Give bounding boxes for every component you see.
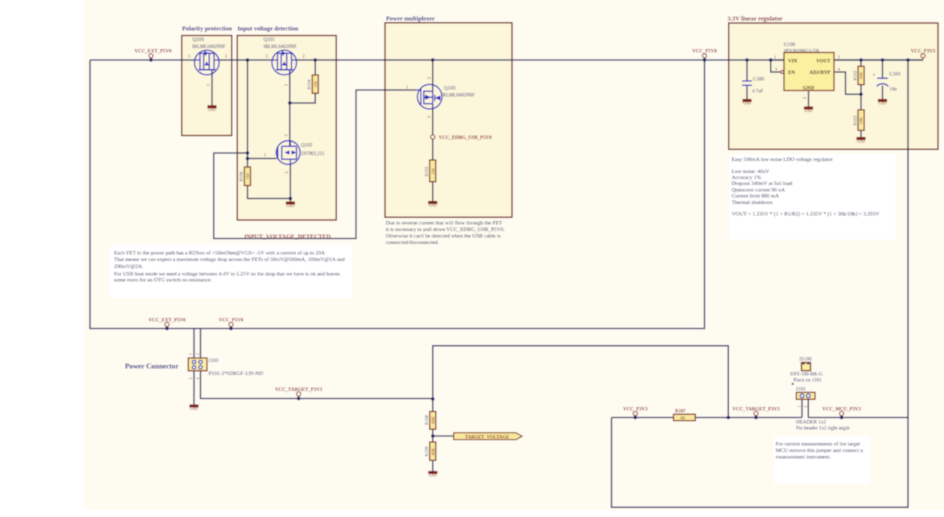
svg-text:measurement instrument.: measurement instrument.	[776, 455, 831, 461]
svg-text:Polarity protection: Polarity protection	[182, 26, 232, 33]
svg-text:ADJ/BYP: ADJ/BYP	[809, 71, 830, 76]
svg-text:JS100: JS100	[799, 356, 812, 362]
svg-text:R102: R102	[852, 70, 857, 81]
svg-text:TARGET_VOLTAGE: TARGET_VOLTAGE	[465, 436, 509, 441]
svg-text:IRLML6402PBF: IRLML6402PBF	[441, 94, 475, 99]
svg-text:Due to reverse current that wi: Due to reverse current that will flow th…	[386, 219, 503, 226]
svg-text:some room for an OTG switch on: some room for an OTG switch on-resistanc…	[114, 277, 212, 284]
svg-text:VCC_TARGET_P3V3: VCC_TARGET_P3V3	[275, 388, 323, 393]
svg-text:Input voltage detection: Input voltage detection	[238, 26, 299, 33]
svg-text:0R: 0R	[680, 416, 685, 421]
svg-text:IRLML6402PBF: IRLML6402PBF	[264, 45, 297, 50]
svg-text:1: 1	[798, 406, 802, 408]
svg-text:For USB host mode we need a vo: For USB host mode we need a voltage betw…	[114, 271, 340, 277]
svg-text:VCC_EXT_P5V0: VCC_EXT_P5V0	[135, 50, 173, 55]
svg-text:EN: EN	[788, 71, 795, 76]
svg-text:1: 1	[283, 84, 288, 86]
svg-text:SPX3819M5-L/TR: SPX3819M5-L/TR	[784, 48, 820, 53]
svg-text:+: +	[873, 73, 876, 79]
svg-text:Low noise: 40uV: Low noise: 40uV	[732, 169, 770, 175]
svg-text:40K: 40K	[430, 447, 435, 455]
svg-text:GND: GND	[743, 102, 751, 106]
svg-text:1M: 1M	[313, 81, 318, 87]
svg-text:18K: 18K	[859, 116, 864, 124]
svg-text:Thermal shutdown: Thermal shutdown	[732, 200, 773, 206]
svg-text:For current measurements of th: For current measurements of the target	[776, 441, 861, 448]
svg-text:3: 3	[284, 134, 289, 136]
svg-text:30K: 30K	[859, 71, 864, 79]
svg-text:3: 3	[775, 66, 777, 71]
svg-text:5: 5	[838, 54, 840, 59]
svg-text:1M: 1M	[245, 173, 250, 179]
svg-text:Q100: Q100	[192, 37, 204, 43]
svg-text:2: 2	[427, 77, 432, 79]
svg-text:3: 3	[266, 54, 268, 59]
svg-text:GND: GND	[287, 204, 295, 208]
svg-text:1: 1	[189, 353, 193, 355]
svg-text:4.7uF: 4.7uF	[752, 90, 764, 95]
svg-text:GND: GND	[190, 407, 198, 411]
svg-text:Dropout 340mV at full load: Dropout 340mV at full load	[732, 180, 793, 187]
svg-text:Quiescent current 90 uA: Quiescent current 90 uA	[732, 187, 785, 193]
svg-text:2: 2	[196, 353, 200, 355]
svg-text:3: 3	[189, 378, 193, 380]
svg-text:Otherwise it can't be detected: Otherwise it can't be detected when the …	[386, 233, 501, 239]
svg-text:INPUT_VOLTAGE_DETECTED: INPUT_VOLTAGE_DETECTED	[244, 234, 331, 240]
svg-text:GND: GND	[857, 140, 865, 144]
svg-text:Accuracy 1%: Accuracy 1%	[732, 175, 762, 181]
svg-text:2: 2	[802, 97, 807, 99]
svg-text:Pin header 1x2 right angle: Pin header 1x2 right angle	[796, 426, 850, 432]
svg-text:VIN: VIN	[788, 60, 798, 65]
svg-text:R107: R107	[675, 410, 686, 415]
svg-text:2: 2	[804, 406, 808, 408]
svg-text:4: 4	[196, 378, 200, 380]
svg-text:1: 1	[406, 85, 408, 90]
svg-text:2: 2	[303, 54, 305, 59]
svg-text:R106: R106	[239, 171, 244, 182]
svg-text:connected/disconnected.: connected/disconnected.	[386, 240, 439, 246]
svg-text:Place on J101: Place on J101	[793, 378, 822, 384]
svg-text:Q103: Q103	[444, 86, 456, 92]
svg-text:VCC_P5V0: VCC_P5V0	[219, 318, 244, 323]
svg-text:it is necessary to pull down V: it is necessary to pull down VCC_EDBG_US…	[386, 227, 505, 233]
svg-text:GND: GND	[208, 108, 216, 112]
svg-text:10u: 10u	[890, 88, 898, 93]
svg-text:GND: GND	[879, 102, 887, 106]
svg-text:VCC_P5V0: VCC_P5V0	[692, 50, 717, 55]
svg-text:R109: R109	[424, 446, 429, 457]
svg-text:SNT-100-BK-G: SNT-100-BK-G	[790, 372, 823, 378]
svg-text:HEADER 1x2: HEADER 1x2	[796, 419, 827, 425]
svg-text:3: 3	[188, 54, 190, 59]
svg-text:VCC_EXT_P5V0: VCC_EXT_P5V0	[149, 318, 187, 323]
svg-text:VCC_EDBG_USB_P5V0: VCC_EDBG_USB_P5V0	[439, 136, 492, 141]
svg-text:200mV@2A.: 200mV@2A.	[114, 264, 143, 270]
svg-text:P101-2*02RGF-139-ND: P101-2*02RGF-139-ND	[209, 371, 264, 377]
svg-text:C100: C100	[753, 77, 765, 83]
svg-text:Power Connector: Power Connector	[125, 363, 179, 371]
svg-text:1M: 1M	[430, 168, 435, 174]
svg-text:2: 2	[284, 171, 289, 173]
svg-text:VCC_TARGET_P3V3: VCC_TARGET_P3V3	[732, 408, 780, 413]
svg-text:VOUT: VOUT	[816, 60, 831, 65]
svg-text:GND: GND	[803, 86, 815, 91]
svg-text:J100: J100	[209, 358, 219, 364]
svg-text:VCC_P3V3: VCC_P3V3	[911, 50, 936, 55]
svg-text:3.3V linear regulator: 3.3V linear regulator	[728, 16, 783, 23]
svg-text:1: 1	[264, 153, 266, 158]
svg-text:VOUT = 1.235V * (1 + R1/R2) =: VOUT = 1.235V * (1 + R1/R2) = 1.235V * (…	[732, 211, 880, 218]
svg-text:Current limit 800 mA: Current limit 800 mA	[732, 194, 779, 200]
svg-text:VCC_P3V3: VCC_P3V3	[623, 408, 648, 413]
svg-text:Easy 500mA low noise LDO volta: Easy 500mA low noise LDO voltage regulat…	[732, 157, 833, 163]
svg-text:GND: GND	[805, 109, 813, 113]
svg-text:Q102: Q102	[301, 143, 313, 149]
svg-text:3: 3	[427, 116, 432, 118]
svg-text:2N7002,215: 2N7002,215	[301, 152, 325, 157]
svg-text:1: 1	[206, 84, 211, 86]
svg-text:R103: R103	[852, 115, 857, 126]
svg-text:2: 2	[225, 54, 227, 59]
svg-text:Q101: Q101	[264, 37, 276, 43]
svg-text:C101: C101	[890, 72, 902, 78]
svg-text:R108: R108	[424, 414, 429, 425]
svg-text:That means we can expect a max: That means we can expect a maximum volta…	[114, 256, 345, 263]
svg-text:R105: R105	[424, 166, 429, 177]
svg-text:VCC_MCU_P3V3: VCC_MCU_P3V3	[822, 408, 861, 413]
svg-text:GND: GND	[429, 474, 437, 478]
svg-text:Each FET in the power path has: Each FET in the power path has a RDSon o…	[114, 250, 325, 257]
svg-text:J101: J101	[796, 386, 806, 392]
svg-text:MCU remove this jumper and con: MCU remove this jumper and connect a	[776, 448, 864, 454]
svg-text:1: 1	[774, 54, 776, 59]
svg-text:Power multiplexer: Power multiplexer	[386, 16, 435, 23]
svg-text:IRLML6402PBF: IRLML6402PBF	[192, 45, 225, 50]
svg-text:GND: GND	[429, 204, 437, 208]
svg-text:R104: R104	[307, 79, 312, 90]
svg-text:40K: 40K	[430, 416, 435, 424]
